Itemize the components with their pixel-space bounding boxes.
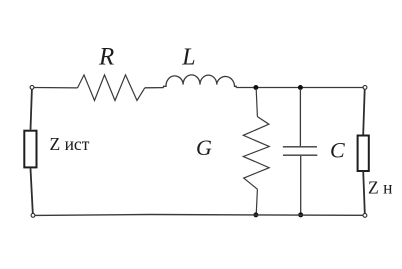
- svg-text:C: C: [330, 138, 345, 163]
- svg-text:Z ист: Z ист: [50, 134, 90, 154]
- wire: node A down to G: [256, 89, 257, 117]
- junction dot: node B top: [298, 85, 303, 90]
- svg-text:Z н: Z н: [368, 177, 392, 197]
- wire: bottom horizontal: [35, 214, 363, 217]
- svg-text:R: R: [98, 44, 114, 71]
- load impedance Z н (rectangle): [358, 136, 369, 172]
- wire: right vertical upper: [363, 89, 365, 134]
- wire: node A to node B (top): [256, 87, 301, 89]
- wire: between R and L: [145, 87, 164, 89]
- wire: node B down to capacitor: [299, 89, 301, 146]
- wire: G down to bottom wire: [256, 189, 257, 215]
- wire: capacitor down to bottom wire: [300, 156, 302, 215]
- capacitor C top plate: [283, 146, 317, 148]
- wire: left vertical upper: [31, 89, 32, 129]
- wire: left vertical lower: [31, 168, 33, 213]
- wire: inductor to node A: [236, 87, 256, 89]
- resistor R (series zigzag): [78, 75, 145, 101]
- svg-text:L: L: [181, 45, 195, 71]
- terminal: bottom-right open circle: [363, 214, 367, 218]
- junction dot: node A bottom: [253, 212, 258, 217]
- terminal: top-left open circle: [30, 86, 34, 90]
- wire: top-left horizontal from source terminal to R: [34, 87, 78, 89]
- wire: right vertical lower: [363, 171, 365, 214]
- capacitor C bottom plate: [283, 154, 317, 156]
- conductance G (shunt zigzag resistor): [243, 117, 269, 190]
- terminal: bottom-left open circle: [31, 214, 35, 218]
- junction dot: node B bottom: [298, 212, 303, 217]
- inductor L (series, 4 loops): [164, 75, 237, 88]
- svg-text:G: G: [196, 135, 212, 160]
- terminal: top-right open circle: [363, 86, 367, 90]
- junction dot: node A top: [253, 85, 258, 90]
- wire: node B to right terminal (top): [300, 87, 364, 89]
- source impedance Z ист (rectangle): [24, 131, 36, 168]
